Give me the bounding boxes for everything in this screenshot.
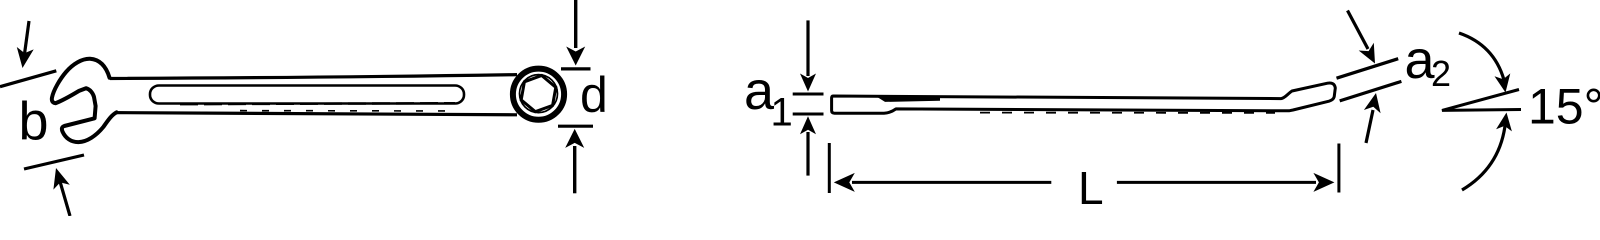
- dimension d: upper arrow: [566, 0, 585, 66]
- dimension L: left extension line: [828, 143, 831, 193]
- dimension d: upper tick: [561, 67, 591, 70]
- dimension b: upper extension tick: [0, 71, 56, 87]
- dimension d: lower arrow: [565, 129, 584, 193]
- wrench top view: shaft slot: [150, 86, 464, 104]
- dimension a1: lower tick: [793, 113, 824, 116]
- dimension d: lower tick: [558, 125, 593, 128]
- wrench side view: body: [832, 83, 1336, 113]
- ring end: hexagon socket: [521, 76, 556, 112]
- svg-text:2: 2: [1431, 53, 1451, 94]
- dimension L: left arrow with line: [834, 173, 1052, 192]
- dimension a2: upper arrow: [1348, 11, 1376, 64]
- wrench side view: bottom edge speckles: [980, 112, 1275, 114]
- ring end: inner circle: [520, 75, 558, 113]
- dimension b: lower leader arrow: [53, 168, 70, 216]
- svg-text:L: L: [1078, 162, 1104, 214]
- wrench top view: shaft: [106, 73, 519, 117]
- 15-degree angle: upper arc arrow: [1459, 33, 1510, 93]
- dimension L: right extension line: [1337, 144, 1340, 193]
- dimension a1: upper tick: [793, 93, 824, 96]
- dimension b: lower extension tick: [24, 155, 84, 169]
- svg-text:15°: 15°: [1528, 79, 1600, 135]
- dimension a1: upper arrow: [800, 20, 816, 91]
- dimension a2: lower arrow: [1364, 93, 1381, 143]
- 15-degree angle: vertex rays: [1442, 90, 1521, 111]
- dimension a2: lower tick: [1340, 81, 1402, 101]
- 15-degree angle: lower arc arrow: [1462, 113, 1512, 191]
- dimension b: upper leader arrow: [17, 21, 34, 68]
- dimension a1: lower arrow: [800, 116, 816, 175]
- svg-text:d: d: [580, 67, 608, 123]
- dimension L: right arrow with line: [1117, 173, 1335, 192]
- wrench top view: slot shading speckles: [180, 103, 460, 111]
- wrench top view: open-end head outline: [52, 59, 117, 142]
- ring end: outer ring: [513, 69, 564, 120]
- svg-text:b: b: [19, 92, 49, 152]
- wrench side view: jaw slot shading: [876, 96, 940, 102]
- dimension a2: upper tick: [1337, 59, 1399, 78]
- svg-text:1: 1: [771, 91, 793, 135]
